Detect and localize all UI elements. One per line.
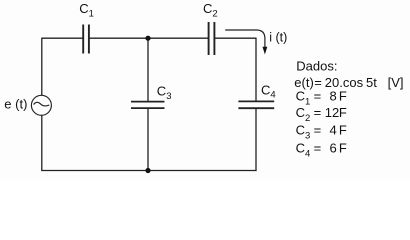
- svg-text:C2: C2: [203, 1, 218, 19]
- capacitor C2: [209, 22, 215, 55]
- wire right rail upper: [255, 38, 257, 101]
- wire left rail lower: [41, 115, 43, 171]
- svg-text:Dados:: Dados:: [296, 58, 337, 73]
- capacitor C1: [83, 25, 89, 54]
- wire top-middle segment: [89, 37, 209, 39]
- svg-text:i (t): i (t): [269, 31, 287, 45]
- capacitor C3: [131, 102, 165, 109]
- node top junction: [145, 36, 150, 41]
- svg-text:C4=6F: C4=6F: [296, 141, 347, 160]
- wire top-right segment: [215, 37, 257, 39]
- capacitor C4: [238, 101, 274, 108]
- svg-text:e(t)=20.cos5t[V]: e(t)=20.cos5t[V]: [294, 75, 403, 90]
- node bottom junction: [145, 168, 150, 173]
- wire top-left segment: [42, 37, 83, 39]
- wire bottom: [41, 170, 256, 172]
- svg-text:C3: C3: [157, 84, 172, 102]
- wire right rail lower: [255, 109, 257, 171]
- wire left rail upper: [41, 38, 43, 96]
- wire middle rail lower: [147, 109, 149, 171]
- svg-text:C4: C4: [261, 82, 276, 100]
- wire middle rail upper: [147, 38, 149, 101]
- svg-text:C3=4F: C3=4F: [296, 123, 347, 142]
- svg-text:e (t): e (t): [4, 97, 27, 112]
- current arrow i(t): [225, 30, 265, 48]
- source U1 e(t): [31, 95, 51, 115]
- svg-text:C2=12F: C2=12F: [296, 105, 347, 124]
- svg-text:C1: C1: [79, 1, 94, 19]
